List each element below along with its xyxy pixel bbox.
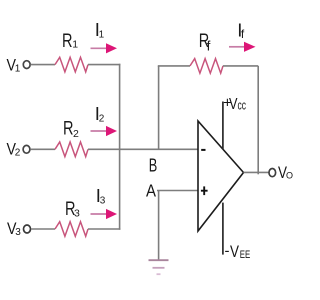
svg-text:1: 1 (72, 38, 78, 50)
svg-text:1: 1 (15, 63, 21, 74)
svg-text:2: 2 (99, 114, 105, 125)
svg-text:EE: EE (240, 249, 251, 261)
negative supply -Vee (223, 203, 250, 261)
ground (149, 260, 169, 274)
resistor Rf (190, 31, 223, 73)
wire R1 to bus (88, 64, 120, 66)
wire node A to non-inverting input (157, 190, 198, 192)
terminal V1 (7, 57, 31, 75)
feedback wire top left segment (158, 65, 190, 67)
svg-text:f: f (207, 39, 211, 54)
svg-text:-: - (225, 243, 230, 260)
resistor R2 (55, 119, 88, 157)
wire V3 to R3 (31, 228, 55, 230)
svg-text:3: 3 (100, 195, 106, 206)
output wire (244, 171, 270, 173)
svg-text:3: 3 (15, 227, 21, 238)
terminal Vo (269, 164, 293, 182)
svg-text:R: R (62, 31, 73, 52)
svg-text:cc: cc (238, 98, 247, 113)
svg-text:2: 2 (73, 128, 79, 140)
current arrow If (229, 20, 256, 52)
current arrow I1 (91, 19, 118, 53)
feedback wire left vertical (158, 66, 160, 149)
svg-text:2: 2 (15, 147, 21, 158)
feedback wire right vertical (257, 66, 259, 174)
wire R2 to op-amp inverting input (88, 148, 198, 150)
feedback wire top right segment (223, 65, 258, 67)
terminal V2 (7, 141, 30, 159)
wire node A to ground (158, 191, 160, 260)
positive supply +Vcc (223, 95, 246, 150)
svg-text:3: 3 (74, 208, 80, 220)
svg-text:O: O (286, 170, 293, 180)
svg-text:V: V (230, 243, 239, 261)
wire V1 to R1 (31, 64, 56, 66)
wire R3 to bus (88, 228, 120, 230)
svg-text:B: B (149, 155, 158, 176)
svg-text:V: V (229, 96, 238, 113)
svg-text:A: A (146, 181, 156, 201)
terminal V3 (7, 220, 31, 238)
summing bus wire (vertical) (119, 64, 121, 230)
resistor R1 (55, 31, 88, 72)
current arrow I3 (91, 185, 118, 219)
current arrow I2 (91, 103, 118, 136)
svg-text:1: 1 (99, 30, 105, 41)
op-amp U1 (198, 121, 244, 231)
resistor R3 (55, 199, 88, 236)
svg-text:R: R (63, 119, 74, 140)
wire V2 to R2 (30, 148, 55, 150)
